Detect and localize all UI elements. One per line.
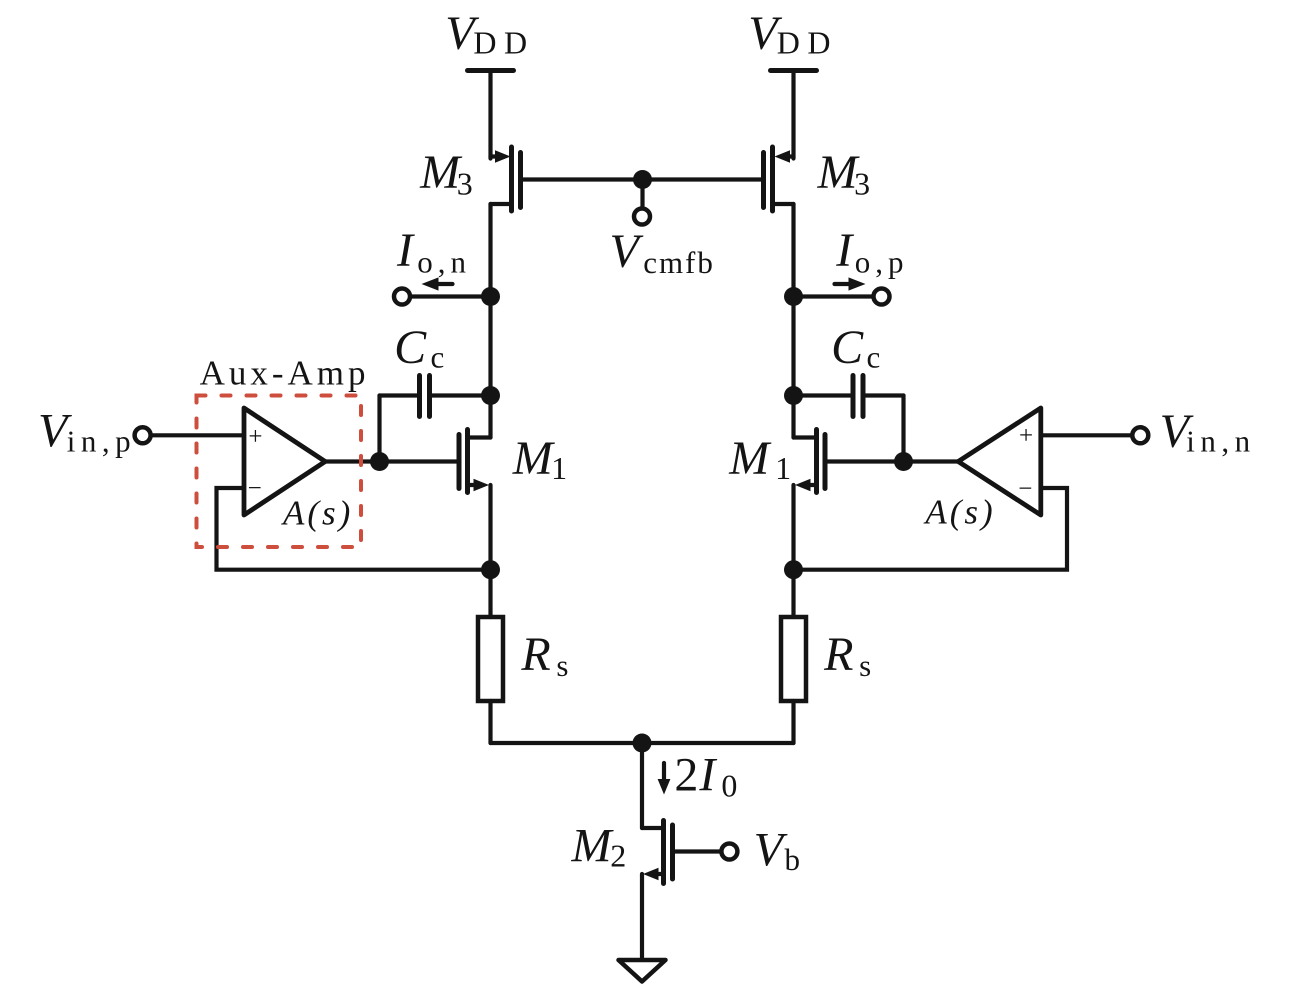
svg-text:R: R — [823, 628, 853, 681]
svg-text:+: + — [248, 423, 262, 450]
svg-text:V: V — [754, 823, 788, 876]
svg-text:C: C — [394, 321, 427, 374]
svg-text:+: + — [1019, 422, 1033, 449]
svg-text:s: s — [556, 648, 568, 683]
svg-text:A(s): A(s) — [281, 494, 353, 533]
svg-text:cmfb: cmfb — [643, 245, 715, 280]
svg-text:R: R — [520, 628, 550, 681]
svg-text:in,n: in,n — [1186, 424, 1255, 459]
svg-text:−: − — [248, 475, 262, 502]
svg-text:3: 3 — [854, 165, 870, 201]
svg-text:o,p: o,p — [855, 245, 909, 280]
svg-text:M: M — [728, 432, 772, 485]
svg-text:Aux-Amp: Aux-Amp — [200, 354, 370, 393]
svg-text:0: 0 — [721, 768, 737, 804]
svg-text:A(s): A(s) — [923, 493, 995, 532]
svg-text:2: 2 — [674, 748, 698, 801]
svg-text:in,p: in,p — [67, 424, 136, 459]
svg-text:I: I — [698, 748, 717, 801]
svg-text:2: 2 — [610, 838, 626, 874]
svg-text:s: s — [859, 648, 871, 683]
svg-text:I: I — [835, 224, 854, 277]
svg-text:DD: DD — [473, 24, 534, 60]
svg-text:I: I — [396, 224, 415, 277]
svg-text:V: V — [610, 225, 644, 278]
svg-text:c: c — [431, 339, 445, 374]
svg-text:C: C — [831, 321, 864, 374]
svg-text:M: M — [571, 820, 615, 873]
svg-text:DD: DD — [777, 24, 838, 60]
svg-text:−: − — [1018, 475, 1032, 502]
svg-text:o,n: o,n — [417, 245, 471, 280]
svg-text:M: M — [512, 432, 556, 485]
svg-text:1: 1 — [551, 450, 567, 486]
svg-text:1: 1 — [775, 450, 791, 486]
svg-text:c: c — [867, 339, 881, 374]
svg-text:3: 3 — [457, 165, 473, 201]
svg-text:b: b — [785, 842, 801, 877]
